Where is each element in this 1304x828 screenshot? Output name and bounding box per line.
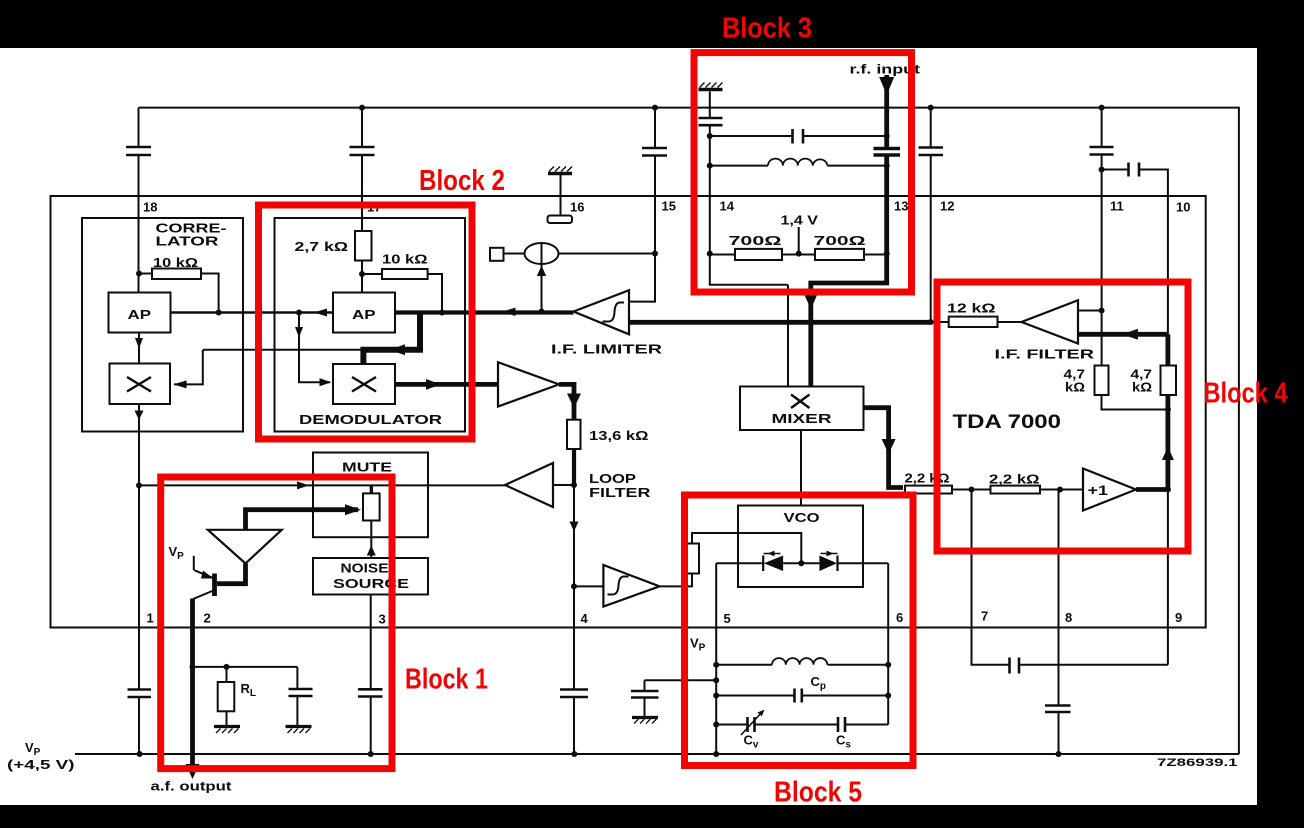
- svg-text:15: 15: [662, 199, 676, 214]
- svg-text:2,2 kΩ: 2,2 kΩ: [905, 471, 950, 486]
- svg-text:1: 1: [147, 611, 154, 626]
- svg-text:16: 16: [570, 200, 584, 215]
- svg-text:13,6 kΩ: 13,6 kΩ: [589, 428, 649, 443]
- svg-text:LATOR: LATOR: [156, 234, 220, 249]
- svg-text:13: 13: [894, 199, 908, 214]
- svg-text:NOISE: NOISE: [341, 561, 389, 576]
- svg-text:I.F. LIMITER: I.F. LIMITER: [551, 342, 663, 357]
- svg-text:SOURCE: SOURCE: [333, 576, 409, 591]
- svg-text:14: 14: [720, 199, 735, 214]
- svg-text:2,2 kΩ: 2,2 kΩ: [989, 472, 1040, 487]
- svg-text:(+4,5 V): (+4,5 V): [7, 757, 75, 772]
- svg-text:a.f. output: a.f. output: [151, 779, 233, 794]
- svg-text:12 kΩ: 12 kΩ: [947, 301, 996, 316]
- svg-text:8: 8: [1065, 610, 1072, 625]
- svg-text:Block 3: Block 3: [722, 13, 812, 45]
- svg-text:11: 11: [1110, 199, 1124, 214]
- svg-text:I.F. FILTER: I.F. FILTER: [995, 347, 1095, 362]
- svg-text:4: 4: [581, 611, 589, 626]
- svg-text:kΩ: kΩ: [1065, 380, 1085, 395]
- svg-text:AP: AP: [352, 307, 376, 322]
- svg-text:9: 9: [1175, 610, 1182, 625]
- svg-text:2: 2: [204, 611, 211, 626]
- svg-text:10 kΩ: 10 kΩ: [153, 255, 198, 270]
- svg-text:VCO: VCO: [784, 510, 820, 525]
- svg-text:6: 6: [896, 610, 903, 625]
- svg-text:700Ω: 700Ω: [729, 233, 782, 248]
- svg-text:18: 18: [143, 200, 157, 215]
- svg-text:Block 1: Block 1: [405, 664, 488, 696]
- svg-text:10: 10: [1176, 200, 1190, 215]
- svg-text:LOOP: LOOP: [589, 471, 636, 486]
- svg-text:+1: +1: [1088, 482, 1109, 498]
- svg-text:Block 2: Block 2: [419, 165, 505, 197]
- svg-text:700Ω: 700Ω: [814, 233, 866, 248]
- svg-text:AP: AP: [128, 307, 152, 322]
- svg-text:kΩ: kΩ: [1132, 380, 1152, 395]
- svg-text:7Z86939.1: 7Z86939.1: [1157, 757, 1238, 769]
- svg-text:Block 4: Block 4: [1204, 378, 1288, 410]
- svg-text:Block 5: Block 5: [774, 777, 862, 809]
- svg-text:12: 12: [940, 199, 954, 214]
- svg-text:FILTER: FILTER: [589, 485, 651, 500]
- svg-text:3: 3: [379, 612, 386, 627]
- svg-text:DEMODULATOR: DEMODULATOR: [299, 412, 443, 427]
- svg-text:1,4 V: 1,4 V: [781, 213, 819, 228]
- svg-text:MIXER: MIXER: [772, 411, 833, 426]
- svg-text:10 kΩ: 10 kΩ: [382, 252, 428, 267]
- svg-text:2,7 kΩ: 2,7 kΩ: [295, 239, 349, 254]
- svg-text:MUTE: MUTE: [342, 460, 392, 475]
- svg-text:5: 5: [724, 611, 731, 626]
- svg-text:7: 7: [981, 609, 988, 624]
- svg-text:TDA 7000: TDA 7000: [953, 411, 1062, 433]
